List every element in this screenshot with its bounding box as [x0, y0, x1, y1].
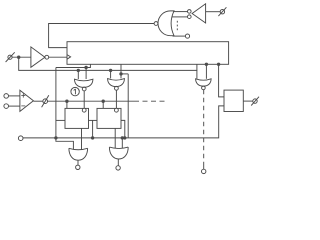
V1 jog to gate C left input	[56, 138, 74, 150]
wire to bottom circle	[203, 165, 205, 170]
gate B (down-pointing, bubble output)	[108, 79, 125, 91]
note marker circled 1	[71, 87, 79, 95]
node dot bus to gate D right input	[121, 136, 124, 139]
node dot clock to FF2	[102, 100, 105, 103]
G1 ellipsis dots	[176, 21, 178, 30]
clock wire	[48, 100, 135, 102]
vertical V1 wire	[55, 68, 57, 138]
comparator input pin 2	[4, 104, 9, 109]
flip-flop FF2	[97, 108, 121, 128]
loop wire from NOR gate to box input	[49, 24, 155, 48]
comparator input pin 1	[4, 94, 9, 99]
gate A left input wire	[77, 70, 79, 79]
gate A right input wire	[85, 68, 87, 80]
input pin A (circle with slash)	[6, 52, 15, 62]
node dot V1 on bottom bus	[54, 136, 57, 139]
G1 input line 3 with open terminal	[173, 35, 186, 37]
clock chevron on box	[67, 55, 71, 60]
wire gate D to output circle	[117, 159, 119, 166]
wire T2 to output pin	[206, 11, 221, 13]
G1 input line 1 with bubble	[173, 11, 187, 13]
wire box to output register upper input	[219, 64, 224, 97]
branch V1 to FF1 D input	[56, 119, 65, 121]
node dot line C tee	[119, 72, 122, 75]
line A rail from box output	[56, 64, 91, 67]
node dot clock to FF1	[65, 100, 68, 103]
node dot on line A	[84, 66, 87, 69]
wire gate C to output circle	[77, 160, 79, 165]
output circle gate E	[202, 169, 206, 173]
output circle gate D	[116, 166, 120, 170]
G1 input line 2 with bubble	[172, 16, 188, 18]
output register block	[224, 90, 243, 111]
gate A (down-pointing, bubble output)	[75, 79, 93, 91]
gate B left input wire	[110, 70, 112, 78]
bottom-left pin circle	[18, 136, 23, 141]
wire gate A output to FF1	[83, 91, 85, 109]
wire clock dot to FF2 top	[102, 101, 104, 108]
vertical V3 wire	[127, 74, 129, 138]
wires pins to comparator	[9, 95, 20, 97]
output pin B (circle with slash)	[218, 7, 226, 16]
bottom bus wire	[23, 106, 224, 138]
flip-flop FF1	[65, 108, 89, 128]
gate E (down-pointing, bubble output)	[196, 79, 212, 90]
output circle gate C	[76, 165, 80, 169]
line C wire	[121, 73, 128, 75]
wire pin A to inverter	[12, 56, 31, 58]
op-amp U2	[20, 90, 34, 111]
wire bus to gate D right input	[121, 138, 123, 149]
wire clock dot to FF1 top	[66, 101, 68, 108]
output pin C (circle with slash)	[251, 97, 259, 106]
NOR gate G1 (left-facing, output bubble west)	[154, 11, 174, 36]
wire FF1 loop down to bus	[92, 120, 94, 137]
clock pin circle with slash	[42, 95, 49, 107]
gate E right input wire	[205, 64, 207, 79]
gate D (down-pointing XOR style)	[109, 147, 128, 159]
wire node A down and right (line B rail)	[19, 57, 197, 70]
wire FF1 to FF2	[89, 119, 98, 121]
wire gate B output to FF2	[115, 90, 117, 108]
wire FF2 loop down to bus	[121, 120, 125, 137]
gate B right input wire	[120, 64, 122, 78]
dashed wire gate E down	[203, 90, 205, 165]
gate C (down-pointing XOR style)	[69, 148, 88, 160]
wire FF1 Q down to gate C	[81, 128, 83, 149]
wire FF2 Q down to gate D	[114, 128, 116, 148]
wire inverter to box clock	[49, 56, 67, 58]
inverter U1	[31, 47, 49, 67]
node dot box to output register	[217, 63, 220, 66]
gate E left input wire	[196, 70, 198, 78]
node A junction dot	[17, 56, 20, 59]
buffer T2 (left-pointing triangle)	[192, 4, 206, 23]
main box (divider block)	[67, 42, 229, 65]
wire op-amp to pin circle	[33, 100, 43, 102]
clock wire dashed continuation	[134, 100, 167, 102]
wire register to output pin	[243, 100, 253, 102]
